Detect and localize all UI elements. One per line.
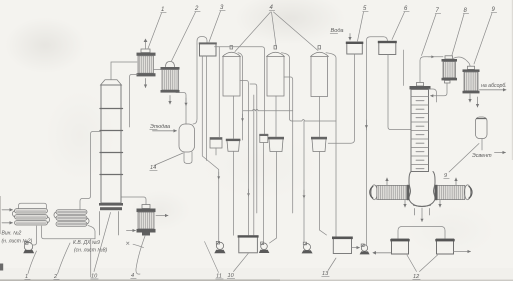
tank 3 (200, 43, 217, 56)
pump P3 base (302, 250, 313, 253)
pot A drain (233, 151, 235, 235)
column K1 bottom leader (94, 213, 111, 272)
header H1 with crossing bumps (243, 109, 293, 111)
arrow out left of TL (374, 252, 392, 254)
arrow on pump1 feed (218, 172, 220, 179)
small mid tank (210, 138, 222, 149)
label 14 leader (154, 153, 183, 166)
pipe exchanger1 bottom left candy-cane (130, 75, 139, 128)
pump P4 base (360, 251, 370, 254)
condenser 10 cap (142, 205, 150, 209)
svg-text:на абсорб.: на абсорб. (481, 83, 507, 89)
arrow on that pipe (428, 56, 434, 58)
column K1 legs (100, 212, 119, 236)
leader label 5 (358, 12, 364, 41)
tank TR (437, 239, 454, 254)
coil 2 tube 2 (56, 216, 87, 220)
pipe A3 (253, 95, 255, 235)
pipe column top to exchanger 1 (111, 62, 137, 80)
condenser 10 feed (122, 197, 147, 205)
tank T1 leader (234, 253, 249, 271)
candy pipe right of column top (429, 89, 437, 102)
condenser 10 bottom flange (137, 229, 156, 233)
tank TL (392, 239, 409, 254)
leader label 8 (452, 14, 464, 55)
reboiler drum of column K2 (409, 172, 435, 207)
exchanger 2 bottom flange (161, 90, 180, 93)
pump P4 (361, 245, 367, 251)
coil 2 tube 1 (56, 210, 87, 214)
coil 2 left bend (54, 212, 56, 218)
left exchanger arrow up (386, 178, 388, 185)
pipe exchanger1 to exchanger2 (154, 69, 163, 71)
pump P2 (261, 243, 268, 250)
small mid tank feed (218, 47, 220, 138)
vessel A stub (230, 46, 233, 49)
condenser 10 top flange (137, 209, 156, 213)
column K1 cone top (101, 80, 122, 85)
coil 1 tube 1 (15, 209, 48, 213)
pipe from arc down to drum (193, 44, 197, 124)
drum bottom piece (184, 152, 192, 164)
box T3a drain to pump P2 (263, 143, 265, 242)
tank T2 (333, 237, 351, 253)
exchanger 2 dome cap (166, 62, 175, 67)
condenser 8 bottom flange (463, 91, 480, 94)
pot B body (269, 139, 283, 151)
small tick (127, 242, 130, 245)
tank T2 top rim (332, 237, 353, 240)
corner blob (0, 264, 3, 271)
left side exchanger cap (371, 185, 377, 200)
pot B feed (275, 96, 277, 137)
pipe hook A1 (238, 53, 243, 110)
condenser 10 out arrow (156, 215, 168, 217)
pipe A4 (250, 84, 257, 213)
coil 1 top pipe (19, 203, 47, 208)
coil 1 right bend (47, 217, 49, 223)
vessel B stub (274, 46, 277, 49)
column K2 top cap (417, 83, 424, 87)
arrow on pipe A1 (242, 114, 244, 121)
arrow esvent (495, 152, 506, 154)
small box T3a (260, 134, 268, 142)
small mid tank drain (215, 148, 217, 155)
small mid tank rim (210, 138, 222, 140)
left exchanger arrow down (404, 200, 406, 207)
pump P2 base (259, 250, 270, 253)
pipe elbow A2 to tank T1 (240, 81, 249, 236)
pipe hook B1 (282, 53, 293, 121)
tank6 drain to column (388, 55, 411, 130)
tank 5 (347, 42, 363, 54)
vessel B body (267, 57, 284, 97)
leader to label 3 (209, 11, 221, 42)
svg-text:(н. лист №2): (н. лист №2) (2, 239, 33, 245)
tank TR top rim (435, 239, 454, 242)
pot B rim (268, 137, 284, 140)
pot B drain (270, 152, 277, 244)
arrow on A2 (248, 189, 250, 196)
pump PL (24, 242, 32, 250)
pot C drain (320, 152, 327, 236)
right exchanger arrow down (439, 200, 441, 207)
vessel C body (311, 57, 328, 97)
condenser 10 in arrow (127, 230, 136, 232)
pump P4 feed (365, 128, 367, 245)
arc pipe over tank 3 (197, 37, 207, 45)
pump P1 base (214, 250, 225, 253)
leader label 6 (392, 12, 405, 40)
condenser 7 bottom flange (442, 78, 458, 81)
column K2 trays (411, 97, 429, 169)
condenser 7 bottom cap (445, 80, 451, 83)
exchanger 2 hatched body (162, 70, 179, 90)
coil 1 tube 2 (15, 215, 48, 219)
condenser 7 top flange (442, 59, 458, 62)
tank T1 top rim (238, 235, 259, 237)
column K1 section line 4 (100, 174, 123, 176)
drum drain arrow (421, 208, 423, 222)
bottom scan edge (0, 279, 280, 281)
pot A feed (233, 96, 235, 139)
arrow voda down (349, 34, 351, 41)
column K2 body (411, 89, 429, 171)
pump PL stub (25, 242, 28, 245)
leader 4c (274, 12, 319, 51)
pump P1 (216, 242, 223, 249)
leader label 2b (58, 243, 71, 274)
condenser 8 second drain arrow (477, 97, 479, 107)
leader 4a (235, 12, 271, 52)
right side exchanger body (435, 185, 465, 199)
exchanger 2 top flange (161, 67, 180, 70)
arrow on P3 feed (303, 190, 305, 198)
leader label 7 (422, 14, 437, 56)
right cap dark edge (469, 186, 472, 198)
link condenser7 to condenser8 (453, 57, 470, 66)
condenser 7 body (443, 62, 456, 78)
leader 4b (272, 12, 277, 49)
column K1 base band (100, 207, 122, 210)
exchanger 1 hatched body (138, 56, 154, 73)
label 9b leader (449, 144, 479, 173)
coil 2 outlet (88, 226, 95, 239)
pump P1 leader (205, 242, 219, 273)
leaders to label 12 (407, 255, 417, 272)
pump P3 (304, 244, 311, 251)
small drain curve (133, 244, 144, 247)
coil 2 top pipe to column (80, 132, 101, 210)
coil 1 tube 3 (15, 221, 48, 225)
pipe hook C1 to tank T2 (326, 53, 336, 237)
pipe column top to condenser 7 (420, 57, 443, 83)
small box T3a rim (259, 134, 268, 136)
vessel A lid (223, 52, 241, 56)
coil 1 transfer line under coil 2 (42, 226, 96, 239)
pump PL base (23, 250, 34, 253)
coil 1 inlet arrow bottom (2, 222, 13, 224)
column K1 body (101, 85, 121, 203)
arrow out right of TR (454, 251, 471, 253)
column K1 section line 3 (100, 152, 123, 154)
arrow on P4 feed (365, 120, 367, 128)
tank5 drain to pot C (328, 54, 354, 143)
svg-text:(сн. лист №8): (сн. лист №8) (74, 248, 108, 254)
drum (epurka feed drum) (179, 124, 195, 152)
condenser 8 cap (468, 66, 475, 69)
pot C rim (311, 137, 327, 140)
pump P3 feed (303, 121, 305, 242)
svg-text:К.В. ДХ №9: К.В. ДХ №9 (73, 240, 100, 246)
left side exchanger flange (407, 185, 410, 200)
vessel B lid (267, 52, 285, 56)
right side exchanger cap (464, 185, 470, 200)
pump P2 stub (261, 242, 264, 245)
arrow on drum feed (185, 98, 187, 106)
left side exchanger body (377, 185, 407, 199)
tank TL top rim (390, 239, 409, 242)
arrow into drum (153, 130, 177, 132)
condenser 10 drain leader (136, 236, 145, 274)
tank 5 top rim (346, 42, 364, 44)
pipe elbow B2 (284, 77, 293, 213)
column K1 section line 1 (100, 108, 123, 110)
left cap dark edge (370, 186, 373, 198)
column K1 section line 2 (100, 130, 123, 132)
svg-text:Эсвент: Эсвент (472, 153, 492, 159)
coil 1 outlet down (33, 226, 37, 245)
right scan edge (512, 0, 513, 160)
pot C body (312, 139, 326, 151)
pot A rim (226, 139, 241, 141)
tank 6 (379, 42, 396, 55)
vessel C lid (311, 52, 329, 56)
drum 9 top edge (477, 118, 487, 120)
vent arrow above exchanger 1 (145, 40, 147, 49)
transfer line drop (90, 239, 92, 277)
pot C feed (319, 97, 321, 137)
arrow below exchanger 1 (145, 79, 147, 88)
pipe exchanger2 drain to drum (176, 93, 186, 124)
exchanger 1 top flange (137, 53, 156, 56)
vessel C stub (318, 46, 321, 49)
drum 9 drain (481, 139, 483, 151)
tank 3 top rim (199, 42, 217, 44)
drain split header (398, 227, 445, 239)
column K1 bottom flange (99, 203, 123, 206)
coil 2 tube 3 (56, 222, 87, 226)
exchanger 1 bottom flange (137, 73, 156, 76)
leader to label 1 (148, 13, 162, 49)
coil 2 right bend (87, 218, 89, 224)
condenser 7 return pipe (431, 83, 448, 96)
balance pipe left of condenser 7 (403, 50, 405, 86)
leader label 1b (28, 251, 37, 274)
leader to label 2 (172, 12, 196, 61)
tank T1 (239, 236, 258, 253)
vessel A body (223, 57, 240, 97)
pipe tank3 drain to pump 1 (202, 56, 218, 242)
pump P3 stub (303, 242, 306, 245)
condenser 10 bottom cap (142, 233, 150, 236)
tank T2 outlet arrow (352, 247, 360, 249)
arrow na absorb (480, 89, 507, 91)
drum 9 (476, 117, 488, 139)
pot A body (227, 141, 239, 151)
tank T2 leader (328, 258, 336, 271)
exchanger 1 (dephlegmator) cap (141, 49, 150, 53)
condenser 8 top flange (463, 69, 480, 72)
condenser 8 drain arrow (469, 93, 471, 102)
right side exchanger flange (435, 185, 438, 200)
right exchanger arrow up (455, 178, 457, 185)
pipe A1 lower to pot A (242, 111, 244, 140)
leader label 9 (474, 13, 492, 64)
header from tank3 to box (215, 47, 265, 134)
column K2 top flange (410, 86, 431, 89)
left edge mark (0, 196, 1, 234)
ticks under drum (414, 209, 416, 216)
header H2 with bump (292, 120, 336, 122)
drum bottom edge (414, 205, 431, 206)
tank 6 top rim (378, 41, 397, 43)
pump P4 stub (361, 244, 364, 246)
coil 1 inlet arrow top (2, 209, 13, 211)
condenser 8 body (464, 72, 478, 91)
svg-text:Вин. №2: Вин. №2 (2, 231, 22, 237)
condenser 7 cap (445, 56, 453, 59)
arrow below exchanger 2 (169, 96, 171, 105)
arc tank6 to pump line (366, 37, 387, 130)
pipe tank3 drain 2 (205, 56, 207, 161)
condenser 10 body (138, 212, 154, 229)
pump P1 stub (216, 241, 219, 244)
coil 1 left bend (12, 211, 14, 217)
